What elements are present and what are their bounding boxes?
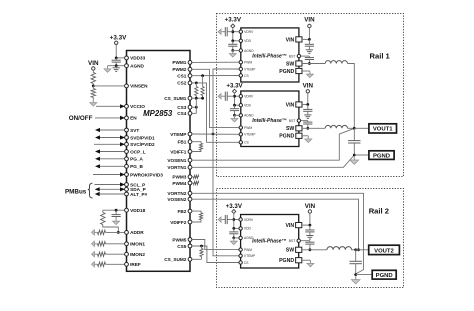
wire VORTN2 sense xyxy=(192,193,364,274)
U1 pin VORTN1 xyxy=(188,165,192,169)
ground (rail 1 output) xyxy=(353,156,355,160)
wire VDD18 row xyxy=(103,209,125,211)
U3 pin VDRV xyxy=(239,95,242,98)
wire +3.3V column (U3) xyxy=(234,93,236,105)
wire +3.3V column (U2) xyxy=(232,28,234,41)
power stage U4 Intelli-Phase body xyxy=(241,215,299,269)
VOUT2 terminal box xyxy=(369,245,400,254)
U2 pin PWM xyxy=(239,61,242,64)
U2 pin BST xyxy=(297,54,300,57)
junction VTEMP bus xyxy=(212,133,215,136)
U1 pin VINSEN xyxy=(125,84,129,88)
ground (U2 VDRV bypass) xyxy=(221,31,223,33)
wire CS_SUM1 row xyxy=(192,97,203,99)
VIN node (U4) xyxy=(308,210,311,213)
svg-text:ON/OFF: ON/OFF xyxy=(69,115,93,122)
PGND (rail 1) terminal box xyxy=(369,151,394,160)
svg-text:VIN: VIN xyxy=(286,37,295,43)
capacitor (U4 VDRV bypass) xyxy=(227,219,234,221)
U1 pin SVC/PVID2 xyxy=(125,142,129,146)
ground (U2 VIN cap) xyxy=(306,49,313,51)
U1 pin AGND xyxy=(125,64,129,68)
U1 pin VOSEN2 xyxy=(188,197,192,201)
svg-text:+3.3V: +3.3V xyxy=(226,203,243,210)
U1 pin IMON2 xyxy=(125,252,129,256)
U1 pin PG_A xyxy=(125,157,129,161)
wire CS2 to U3 xyxy=(192,83,239,142)
svg-text:VIN: VIN xyxy=(285,223,294,229)
svg-text:Intelli-Phase™: Intelli-Phase™ xyxy=(252,238,286,244)
U1 pin PWM5 xyxy=(188,238,192,242)
ground (U4 VIN cap) xyxy=(306,235,313,237)
wire to VOUT2 box xyxy=(356,249,369,251)
svg-text:CS5: CS5 xyxy=(177,244,187,249)
resistor R4 (ADDR) xyxy=(96,231,97,233)
U3 pin AGND xyxy=(239,114,242,117)
svg-text:CS4: CS4 xyxy=(177,111,187,116)
U4 pin VDRV xyxy=(239,218,242,221)
wire VOSEN2 sense xyxy=(192,199,359,250)
ground (U3 VDRV bypass) xyxy=(221,95,223,97)
wire PG_B (output) xyxy=(95,164,100,168)
svg-text:VORTN1: VORTN1 xyxy=(167,165,186,170)
U3 pin SW xyxy=(296,126,302,131)
svg-text:OCP_L: OCP_L xyxy=(130,149,146,154)
svg-text:VOUT2: VOUT2 xyxy=(374,248,394,254)
resistor R2 (VIN divider bottom) xyxy=(92,86,94,89)
wire AGND (U3) xyxy=(235,114,239,116)
capacitor (U3 bootstrap BST) xyxy=(301,120,308,122)
svg-text:PGND: PGND xyxy=(376,273,393,279)
capacitor C3 (rail 1 output) xyxy=(353,128,355,140)
wire SW2 to inductor xyxy=(302,127,325,129)
svg-text:+3.3V: +3.3V xyxy=(225,17,242,24)
power stage U3 Intelli-Phase body xyxy=(241,91,299,147)
U1 pin EN xyxy=(125,116,129,120)
ground (rail 2 output) xyxy=(355,276,357,280)
rail 1 dashed boundary box xyxy=(217,14,404,177)
node VOUT1 junction xyxy=(353,127,356,130)
U1 pin VDD18 xyxy=(125,208,129,212)
svg-text:IREF: IREF xyxy=(130,262,141,267)
wire +3.3V to VDD33 xyxy=(115,45,117,58)
capacitor (U2 bootstrap BST) xyxy=(301,55,310,57)
svg-text:VTEMP: VTEMP xyxy=(244,67,256,71)
ground (IMON2) xyxy=(94,253,96,255)
svg-text:VDD: VDD xyxy=(244,227,252,231)
svg-text:FB1: FB1 xyxy=(178,140,187,145)
vertical VTEMP bus xyxy=(213,69,239,134)
U3 pin BST xyxy=(297,119,300,122)
svg-text:MP2853: MP2853 xyxy=(143,109,173,118)
inductor L1 xyxy=(325,61,347,64)
junction VDRV (U2) xyxy=(231,30,234,33)
svg-text:PGND: PGND xyxy=(373,153,390,159)
wire ALT_P# (output) xyxy=(95,192,100,196)
U1 pin PWM2 xyxy=(188,67,192,71)
svg-text:+3.3V: +3.3V xyxy=(110,35,127,42)
junction VDD (U2) xyxy=(231,39,234,42)
wire divider to VINSEN xyxy=(93,85,124,87)
svg-text:SVD/PVID1: SVD/PVID1 xyxy=(130,135,155,140)
wire PGND stub (U4) xyxy=(302,259,311,261)
capacitor (U2 VIN input) xyxy=(308,39,310,44)
U3 pin VTEMP xyxy=(239,133,242,136)
svg-text:VDD: VDD xyxy=(244,39,252,43)
U1 pin PG_B xyxy=(125,164,129,168)
wire PWM5 to U4 xyxy=(192,240,239,250)
junction VIN (U4) xyxy=(309,224,312,227)
svg-text:+3.3V: +3.3V xyxy=(226,83,243,90)
junction VINSEN divider xyxy=(92,85,95,88)
U1 pin CS5 xyxy=(188,244,192,248)
capacitor (U3 VDD decoupling) xyxy=(234,105,236,109)
ground (U2 PGND) xyxy=(309,71,311,74)
junction VIN (U2) xyxy=(308,38,311,41)
junction ADDR xyxy=(117,231,120,234)
ground (U3 AGND) xyxy=(234,115,236,118)
junction VDD33 rail xyxy=(115,57,118,60)
U2 pin VDD xyxy=(239,39,242,42)
junction VOSEN2 tap xyxy=(357,248,360,251)
junction AGND (U2) xyxy=(231,49,234,52)
U1 pin FB2 xyxy=(188,209,192,213)
resistor R7 (IREF) xyxy=(96,263,97,265)
wire SVT (output) xyxy=(95,128,100,132)
ground (U3 VIN cap) xyxy=(304,114,311,116)
wire PG_A (output) xyxy=(95,157,100,161)
svg-text:VDRV: VDRV xyxy=(244,30,254,34)
junction CS3 xyxy=(195,106,198,109)
resistor R10 (FB1-VDIFF1) xyxy=(192,142,201,144)
svg-text:VIN: VIN xyxy=(304,17,315,24)
svg-text:PWM5: PWM5 xyxy=(172,237,186,242)
svg-text:PGND: PGND xyxy=(279,69,294,75)
VIN node (U2) xyxy=(308,24,311,27)
junction CS_SUM1 b xyxy=(201,97,204,100)
U1 pin SVT xyxy=(125,128,129,132)
wire VIN column (U4) xyxy=(309,213,311,225)
svg-text:VTEMP: VTEMP xyxy=(244,254,256,258)
svg-text:SVT: SVT xyxy=(130,128,139,133)
U2 pin VTEMP xyxy=(239,67,242,70)
U1 pin CS3 xyxy=(188,105,192,109)
wire PWM2 to U3 xyxy=(192,69,239,127)
junction AGND (U4) xyxy=(232,237,235,240)
capacitor (U3 VIN input) xyxy=(307,105,309,110)
svg-text:Intelli-Phase™: Intelli-Phase™ xyxy=(252,54,286,60)
junction CS2 sum xyxy=(195,82,198,85)
svg-text:AGND: AGND xyxy=(244,114,254,118)
svg-text:PG_A: PG_A xyxy=(130,157,143,162)
svg-text:SW: SW xyxy=(286,126,294,132)
U2 pin SW xyxy=(296,61,302,66)
svg-text:PWM3: PWM3 xyxy=(172,175,186,180)
svg-text:ALT_P#: ALT_P# xyxy=(130,192,147,197)
wire L3 to output xyxy=(352,249,356,251)
U2 pin PGND xyxy=(296,68,302,73)
svg-text:PGND: PGND xyxy=(279,258,294,264)
junction SW (U3) xyxy=(306,127,309,130)
U1 pin OCP_L xyxy=(125,150,129,154)
svg-text:PWROK/PVID3: PWROK/PVID3 xyxy=(130,172,163,177)
U3 pin CS xyxy=(239,141,242,144)
svg-text:BST: BST xyxy=(289,54,296,58)
U1 pin SCL_P xyxy=(125,183,129,187)
U4 pin BST xyxy=(297,239,300,242)
junction VDD (U4) xyxy=(232,227,235,230)
U1 pin ALT_P# xyxy=(125,192,129,196)
wire CS1 to U2 xyxy=(192,75,239,77)
svg-text:SW: SW xyxy=(286,61,294,67)
svg-text:CS1: CS1 xyxy=(177,74,187,79)
junction CS_SUM1 a xyxy=(195,97,198,100)
svg-text:PMBus: PMBus xyxy=(65,189,87,196)
junction VDRV (U4) xyxy=(232,218,235,221)
U1 pin FB1 xyxy=(188,140,192,144)
svg-text:CS2: CS2 xyxy=(177,81,187,86)
svg-text:VDD18: VDD18 xyxy=(130,208,146,213)
resistor R8 (CS1 sum) xyxy=(202,76,204,87)
ground (IMON1) xyxy=(94,243,96,245)
junction VDD (U3) xyxy=(233,104,236,107)
svg-text:VORTN2: VORTN2 xyxy=(167,191,186,196)
ground (below C1) xyxy=(115,66,117,68)
U1 pin SVD/PVID1 xyxy=(125,136,129,140)
resistor R11 (PWM3 stub) xyxy=(192,176,193,178)
svg-text:CS_SUM2: CS_SUM2 xyxy=(164,257,187,262)
resistor R3 (VDD18 to ADDR) xyxy=(102,210,104,212)
+3.3V supply node (U4) xyxy=(232,210,236,214)
svg-text:VDRV: VDRV xyxy=(244,218,254,222)
svg-text:VTEMP: VTEMP xyxy=(244,133,256,137)
junction VDRV (U3) xyxy=(233,95,236,98)
svg-text:BST: BST xyxy=(289,239,296,243)
U1 pin PWM4 xyxy=(188,181,192,185)
ground (U4 VDRV bypass) xyxy=(221,219,223,221)
ground (IREF) xyxy=(94,263,96,265)
junction SW (U2) xyxy=(308,62,311,65)
wire VIN column (U2) xyxy=(308,28,310,40)
U4 pin VTEMP xyxy=(239,254,242,257)
junction VIN (U3) xyxy=(306,103,309,106)
svg-text:EN: EN xyxy=(130,116,137,121)
capacitor (U2 VDD decoupling) xyxy=(232,41,234,45)
inductor L3 xyxy=(327,247,352,250)
wire PGND stub (U3) xyxy=(302,135,308,137)
wire SW3 to inductor xyxy=(302,249,327,251)
ground (ADDR) xyxy=(94,231,96,233)
resistor R5 (IMON1) xyxy=(96,243,97,245)
wire SW1 to inductor xyxy=(302,63,325,65)
svg-text:VDD: VDD xyxy=(244,104,252,108)
wire to PGND1 box xyxy=(354,154,369,156)
svg-text:VDRV: VDRV xyxy=(244,95,254,99)
svg-text:PGND: PGND xyxy=(279,134,294,140)
svg-text:VDD33: VDD33 xyxy=(130,56,146,61)
capacitor (U4 bootstrap BST) xyxy=(301,240,310,242)
U1 pin VCCIO xyxy=(125,104,129,108)
junction AGND rail xyxy=(115,64,118,67)
node VOUT2 junction xyxy=(354,248,357,251)
U1 pin PWROK/PVID3 xyxy=(125,173,129,177)
U2 pin VDRV xyxy=(239,30,242,33)
svg-text:CS: CS xyxy=(244,74,249,78)
ground (U2 AGND) xyxy=(232,51,234,54)
wire VOSEN1 sense xyxy=(192,128,354,160)
svg-text:VCCIO: VCCIO xyxy=(130,104,145,109)
wire AGND (U2) xyxy=(233,50,239,52)
U1 pin CS_SUM1 xyxy=(188,96,192,100)
svg-text:Intelli-Phase™: Intelli-Phase™ xyxy=(252,118,286,124)
capacitor C4 (rail 2 output) xyxy=(355,250,357,261)
U4 pin VIN xyxy=(296,223,302,228)
U3 pin VDD xyxy=(239,104,242,107)
svg-text:VINSEN: VINSEN xyxy=(130,84,148,89)
wire VIN column (U3) xyxy=(307,93,309,105)
svg-text:BST: BST xyxy=(289,119,296,123)
wire +3.3V column (U4) xyxy=(233,213,235,228)
U1 pin SDA_P xyxy=(125,187,129,191)
svg-text:FB2: FB2 xyxy=(178,209,187,214)
capacitor (U4 VIN input) xyxy=(309,225,311,230)
U3 pin PGND xyxy=(296,133,302,138)
svg-text:IMON1: IMON1 xyxy=(130,242,145,247)
U2 pin VIN xyxy=(296,37,302,42)
U4 pin VDD xyxy=(239,227,242,230)
svg-text:IMON2: IMON2 xyxy=(130,252,145,257)
wire CS4 tie xyxy=(192,112,196,114)
svg-text:VOUT1: VOUT1 xyxy=(373,127,393,133)
svg-text:PWM: PWM xyxy=(244,248,252,252)
capacitor (U4 VDD decoupling) xyxy=(233,228,235,232)
svg-text:SW: SW xyxy=(286,248,294,254)
wire to VOUT1 box xyxy=(354,127,369,129)
resistor R13 (FB2-VDIFF2) xyxy=(192,211,201,213)
svg-text:VIN: VIN xyxy=(286,102,295,108)
svg-text:PWM: PWM xyxy=(244,126,252,130)
svg-text:PWM1: PWM1 xyxy=(172,60,186,65)
svg-text:VIN: VIN xyxy=(88,60,99,67)
ground (left of AGND) xyxy=(107,66,109,69)
ground (U4 PGND) xyxy=(309,260,311,263)
svg-text:CS: CS xyxy=(244,261,249,265)
resistor R9 (CS2 sum) xyxy=(195,83,197,87)
svg-text:AGND: AGND xyxy=(130,64,144,69)
wire AGND row xyxy=(116,65,124,67)
svg-text:CS3: CS3 xyxy=(177,105,187,110)
VOUT1 terminal box xyxy=(369,124,397,133)
capacitor (U3 VDRV bypass) xyxy=(227,95,234,97)
capacitor (U2 VDRV bypass) xyxy=(227,31,233,33)
U4 pin PWM xyxy=(239,248,242,251)
wire CS3 tie xyxy=(192,106,196,108)
wire SVD/PVID1 (bidir) xyxy=(95,135,100,139)
PMBus brace xyxy=(88,183,93,198)
U1 pin PWM3 xyxy=(188,175,192,179)
U2 pin CS xyxy=(239,74,242,77)
svg-text:VOSEN1: VOSEN1 xyxy=(167,158,186,163)
junction AGND (U3) xyxy=(233,114,236,117)
U1 pin CS4 xyxy=(188,112,192,116)
U1 pin VDIFF2 xyxy=(188,220,192,224)
junction CS1 sum xyxy=(201,74,204,77)
U1 pin IMON1 xyxy=(125,242,129,246)
U3 pin PWM xyxy=(239,126,242,129)
wire PGND stub (U2) xyxy=(302,70,310,72)
svg-text:PG_B: PG_B xyxy=(130,164,143,169)
U1 pin ADDR xyxy=(125,231,129,235)
wire SDA_P (bidir) xyxy=(95,187,100,191)
wire CS_SUM2 row xyxy=(192,258,202,260)
+3.3V supply node (U3) xyxy=(233,89,237,93)
junction SW (U4) xyxy=(309,248,312,251)
svg-text:SVC/PVID2: SVC/PVID2 xyxy=(130,142,155,147)
U1 pin CS2 xyxy=(188,81,192,85)
U1 pin VOSEN1 xyxy=(188,158,192,162)
resistor R12 (PWM4 stub) xyxy=(192,182,193,184)
ground (VDD18 cap) xyxy=(115,218,117,221)
svg-text:PWM4: PWM4 xyxy=(172,181,186,186)
resistor R14 (CS5 sum) xyxy=(201,246,203,248)
svg-text:VDIFF2: VDIFF2 xyxy=(170,220,187,225)
ground (U4 AGND) xyxy=(233,238,235,241)
rail 2 dashed boundary box xyxy=(217,189,404,288)
VIN node (U3) xyxy=(306,90,309,93)
wire VCCIO input xyxy=(96,105,124,107)
+3.3V supply node (U2) xyxy=(231,24,235,28)
wire L1 to output xyxy=(348,64,355,129)
svg-text:VIN: VIN xyxy=(303,83,314,90)
svg-text:PWM2: PWM2 xyxy=(172,67,186,72)
U1 pin IREF xyxy=(125,262,129,266)
U1 pin VORTN2 xyxy=(188,191,192,195)
svg-text:AGND: AGND xyxy=(244,236,254,240)
wire PWM1 to U2 xyxy=(192,61,239,63)
wire SVC/PVID2 (input) xyxy=(94,143,124,145)
wire OCP_L (output) xyxy=(95,149,100,153)
wire EN input xyxy=(95,117,124,119)
node PGND1 junction xyxy=(353,154,356,157)
U4 pin SW xyxy=(296,247,302,252)
wire SCL_P (input) xyxy=(95,184,125,186)
PGND (rail 2) terminal box xyxy=(372,270,396,279)
U1 pin CS_SUM2 xyxy=(188,257,192,261)
svg-text:CS: CS xyxy=(244,141,249,145)
U4 pin PGND xyxy=(296,258,302,263)
svg-text:Rail 1: Rail 1 xyxy=(370,52,391,61)
inductor L2 xyxy=(325,125,347,128)
U1 pin CS1 xyxy=(188,74,192,78)
VIN node xyxy=(92,67,95,70)
wire to PGND2 box xyxy=(356,274,373,276)
ground (VIN divider) xyxy=(92,100,94,103)
capacitor C1 (VDD33 decoupling) xyxy=(115,58,117,60)
U4 pin AGND xyxy=(239,236,242,239)
wire PWROK/PVID3 (input) xyxy=(93,174,124,176)
svg-text:VIN: VIN xyxy=(305,203,316,210)
+3.3V supply node (U1) xyxy=(115,41,118,44)
power stage U2 Intelli-Phase body xyxy=(241,28,299,82)
capacitor C2 (VDD18) xyxy=(115,210,117,214)
U4 pin CS xyxy=(239,261,242,264)
wire L2 to output xyxy=(348,127,355,129)
ground (U3 PGND) xyxy=(307,136,309,139)
resistor R6 (IMON2) xyxy=(96,253,97,255)
U1 pin VTEMP xyxy=(188,132,192,136)
wire CS5 to U4 xyxy=(192,246,239,263)
svg-text:AGND: AGND xyxy=(244,49,254,53)
